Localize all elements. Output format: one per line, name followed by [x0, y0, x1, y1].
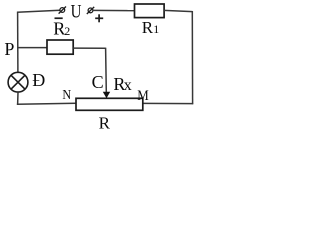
wire left vertical upper	[17, 12, 19, 72]
wire P to R2	[17, 47, 47, 49]
svg-text:1: 1	[153, 22, 159, 36]
label Đ	[32, 70, 45, 90]
wire R1 to top-right corner	[164, 10, 192, 11]
svg-text:R: R	[142, 18, 154, 37]
svg-text:P: P	[4, 39, 14, 59]
label R2	[53, 18, 70, 38]
wiper arrow C	[103, 92, 110, 99]
svg-text:Đ: Đ	[32, 70, 45, 90]
wire terminal+ to R1	[93, 9, 135, 11]
label U	[71, 1, 82, 22]
svg-text:N: N	[62, 88, 71, 103]
label N	[62, 88, 71, 103]
svg-text:U: U	[71, 1, 82, 22]
label R1	[142, 18, 160, 37]
svg-text:M: M	[137, 88, 149, 104]
wire bottom N horizontal	[17, 103, 77, 104]
label M	[137, 88, 149, 104]
potentiometer R body	[76, 98, 143, 110]
terminal + (positive)	[87, 7, 94, 14]
wire top-left horizontal	[17, 10, 60, 12]
label C	[92, 72, 104, 92]
lamp Đ body	[8, 72, 28, 92]
terminal - (negative)	[59, 7, 66, 14]
wire wiper vertical	[105, 48, 108, 93]
svg-text:x: x	[124, 77, 132, 94]
wire R2 to wiper corner	[73, 47, 105, 49]
node P label	[4, 39, 14, 59]
minus label of source	[55, 17, 63, 19]
wire right vertical	[191, 11, 193, 104]
resistor R2 body	[47, 40, 73, 54]
resistor R1 body	[135, 4, 165, 18]
svg-text:C: C	[92, 72, 104, 92]
wire lamp to bottom-left corner	[17, 92, 19, 105]
label R (potentiometer)	[99, 114, 111, 133]
label Rx	[113, 74, 131, 94]
plus label of source	[95, 14, 103, 22]
svg-text:2: 2	[64, 24, 70, 38]
svg-text:R: R	[99, 114, 111, 133]
wire bottom-right to M	[143, 102, 194, 104]
